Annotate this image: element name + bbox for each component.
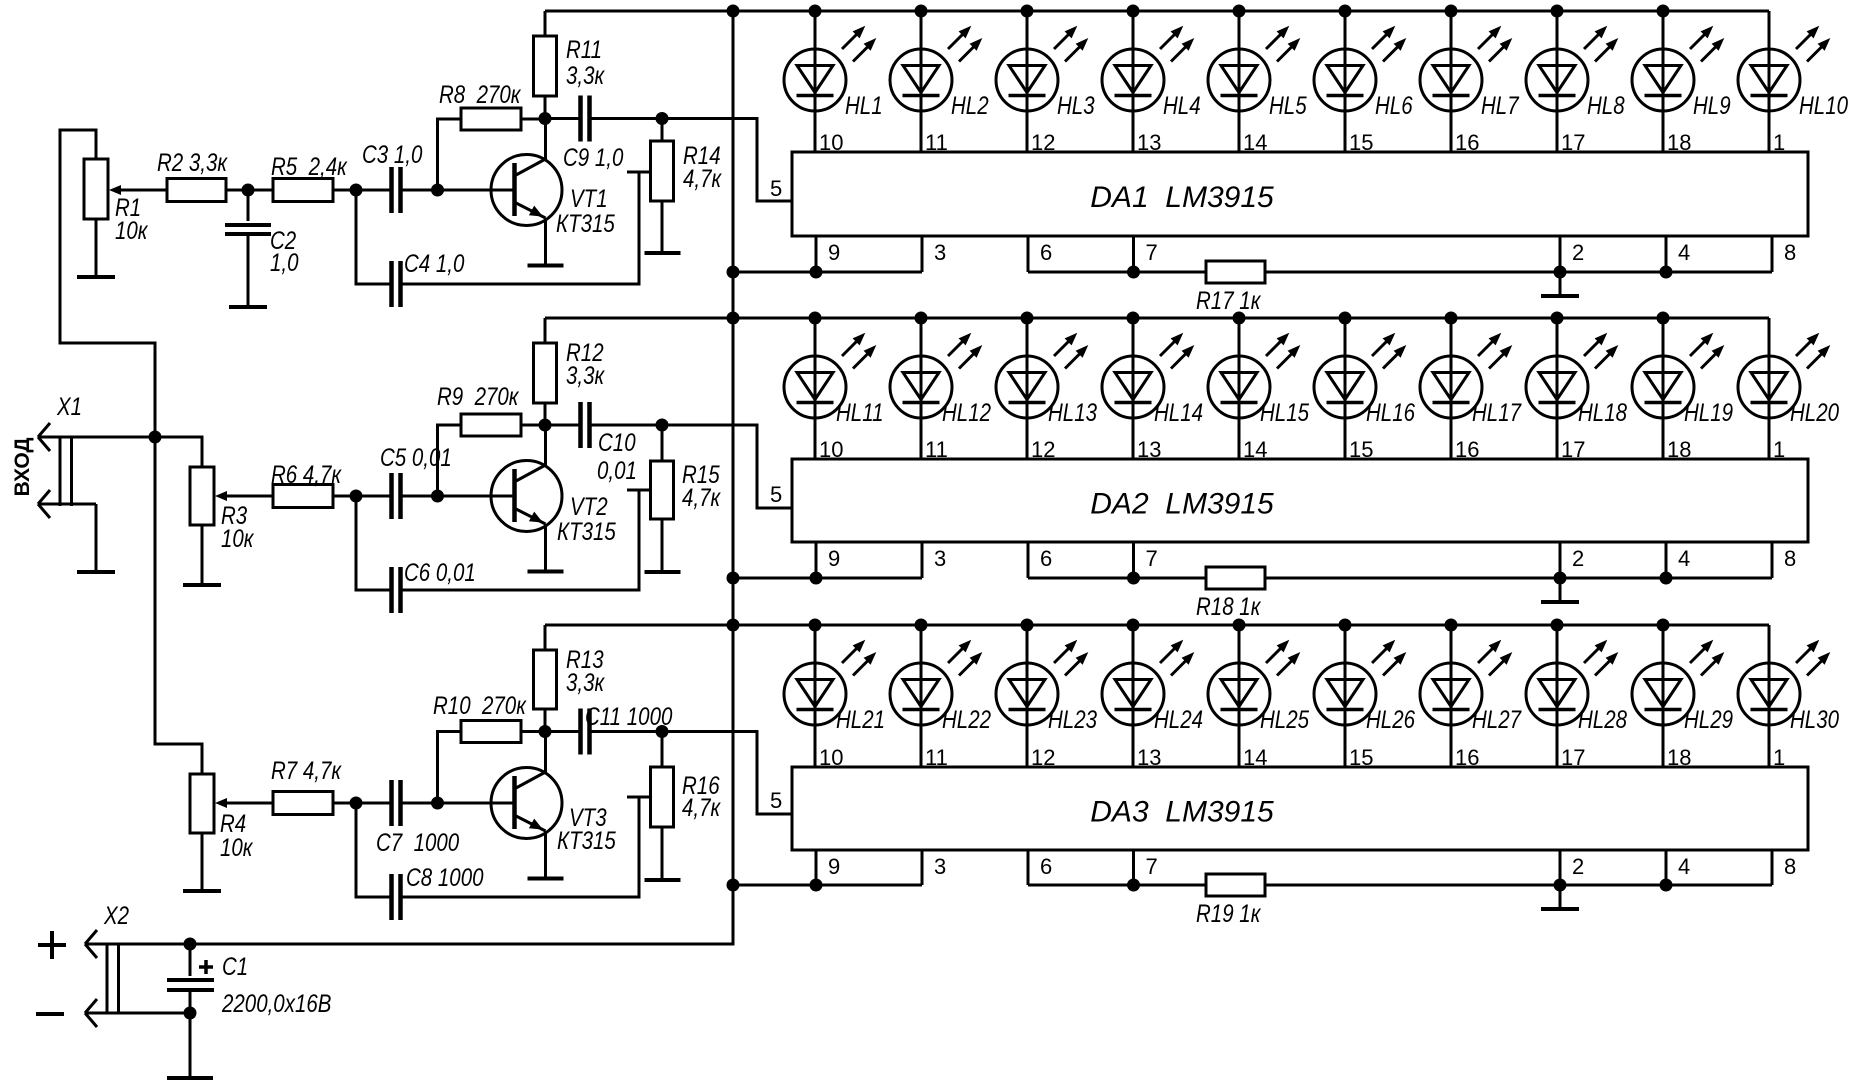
ground under C1 (167, 1013, 213, 1078)
ground at pin 2 DA2 (1541, 578, 1579, 602)
junction base node ch2 (431, 490, 444, 503)
svg-text:HL22: HL22 (942, 705, 991, 733)
wire C5 to base node (401, 495, 515, 498)
svg-text:R10 270к: R10 270к (433, 691, 527, 719)
svg-text:DA1 LM3915: DA1 LM3915 (1090, 181, 1274, 214)
junction V+ rail / bus row 1 (727, 5, 740, 18)
wire node1 down to C8 (356, 803, 391, 897)
LED HL15 (1208, 312, 1309, 463)
svg-text:DA2 LM3915: DA2 LM3915 (1090, 488, 1274, 521)
junction V+ rail / pin9 wire DA1 (727, 266, 740, 279)
svg-text:7: 7 (1146, 240, 1158, 265)
LED HL19 (1632, 312, 1733, 463)
pin 8 stub DA2 (1772, 542, 1796, 578)
junction V+ rail / pin9 wire DA3 (727, 879, 740, 892)
ground under R4 (183, 833, 221, 891)
wire V+ rail horizontal from X2 (85, 943, 735, 946)
wire bus to R12 (544, 318, 547, 343)
LED HL21 (784, 619, 885, 771)
svg-text:6: 6 (1040, 546, 1052, 571)
svg-text:8: 8 (1784, 546, 1796, 571)
junction node1 ch1 (350, 184, 363, 197)
wire pins 6,7 of DA3 (1028, 884, 1206, 887)
LED HL5 (1208, 5, 1307, 156)
junction C1 plus (184, 938, 197, 951)
wire V+ rail vertical (732, 11, 735, 946)
svg-text:HL12: HL12 (942, 398, 991, 426)
capacitor C8 (392, 863, 484, 920)
svg-text:R19 1к: R19 1к (1196, 899, 1261, 927)
svg-text:HL27: HL27 (1472, 705, 1522, 733)
svg-text:7: 7 (1146, 854, 1158, 879)
wire bus to R13 (544, 625, 547, 650)
junction pin 7 DA3 (1127, 879, 1140, 892)
wire R19 to pins 2,4,8 of DA3 (1265, 884, 1772, 887)
resistor R19 1к (1196, 874, 1265, 927)
LED HL27 (1420, 619, 1522, 771)
pin 9 stub DA3 (816, 850, 840, 885)
svg-text:4,7к: 4,7к (683, 164, 722, 192)
wire R7 to node (333, 802, 391, 805)
svg-text:C6 0,01: C6 0,01 (404, 558, 476, 586)
resistor R10 (433, 691, 527, 742)
resistor R16 (651, 732, 722, 828)
svg-text:HL7: HL7 (1481, 91, 1520, 119)
svg-text:8: 8 (1784, 854, 1796, 879)
pin 8 stub DA1 (1772, 236, 1796, 272)
svg-text:R11: R11 (566, 35, 602, 63)
wire base node up to R8 (438, 119, 462, 190)
svg-text:5: 5 (770, 176, 782, 201)
LED HL14 (1102, 312, 1203, 463)
capacitor C3 (362, 140, 423, 213)
wire R13 to collector node (544, 709, 547, 732)
junction collector node ch1 (539, 112, 552, 125)
svg-text:10к: 10к (220, 833, 254, 861)
svg-text:HL5: HL5 (1269, 91, 1307, 119)
pin 7 stub DA2 (1134, 542, 1158, 578)
svg-text:3: 3 (934, 240, 946, 265)
pin 2 stub DA3 (1560, 850, 1584, 885)
svg-text:HL16: HL16 (1366, 398, 1415, 426)
svg-text:4,7к: 4,7к (682, 483, 721, 511)
resistor R11 (534, 35, 606, 96)
junction pin 4 DA3 (1660, 879, 1673, 892)
svg-text:HL28: HL28 (1578, 705, 1627, 733)
LED HL13 (996, 312, 1097, 463)
wire R6 to node (333, 495, 391, 498)
connector X1 (38, 392, 202, 518)
wire R12 to collector node (544, 403, 547, 425)
svg-text:HL1: HL1 (845, 91, 883, 119)
capacitor C9 (563, 96, 624, 172)
junction divider node ch3 (656, 725, 669, 738)
junction divider node ch1 (656, 112, 669, 125)
wire input rail to R4 (155, 437, 202, 774)
resistor R7 (271, 756, 342, 814)
svg-text:5: 5 (770, 788, 782, 813)
LED HL12 (890, 312, 991, 463)
svg-text:2: 2 (1572, 240, 1584, 265)
svg-text:X1: X1 (56, 392, 82, 420)
svg-text:3,3к: 3,3к (566, 361, 605, 389)
junction pin 4 DA2 (1660, 572, 1673, 585)
LED HL30 (1738, 625, 1839, 770)
junction input rail / X1 (149, 431, 162, 444)
svg-text:C9 1,0: C9 1,0 (563, 143, 624, 171)
LED HL18 (1526, 312, 1627, 463)
resistor R6 (271, 460, 342, 507)
svg-text:2: 2 (1572, 854, 1584, 879)
wire wiper to R5 (215, 185, 273, 195)
ground under R15 (645, 519, 681, 572)
svg-text:HL14: HL14 (1154, 398, 1203, 426)
svg-text:R9 270к: R9 270к (437, 382, 520, 410)
svg-text:2: 2 (1572, 546, 1584, 571)
LED HL9 (1632, 5, 1731, 156)
svg-text:7: 7 (1146, 546, 1158, 571)
pin 2 stub DA2 (1560, 542, 1584, 578)
IC DA1 LM3915 (792, 152, 1808, 236)
wire R9 to collector node (521, 424, 546, 427)
svg-text:R18 1к: R18 1к (1196, 592, 1261, 620)
svg-text:HL10: HL10 (1799, 91, 1848, 119)
wire wiper to R6 (215, 491, 273, 501)
svg-text:4: 4 (1678, 854, 1690, 879)
wire R1 top to input rail (60, 130, 155, 437)
junction V+ rail / bus row 3 (727, 619, 740, 632)
LED HL7 (1420, 5, 1520, 156)
wire input node to R3 (155, 437, 202, 467)
wire R18 to pins 2,4,8 of DA2 (1265, 577, 1772, 580)
junction node1 ch3 (350, 797, 363, 810)
wire R11 to collector node (544, 96, 547, 119)
svg-text:X2: X2 (103, 901, 129, 929)
svg-text:0,01: 0,01 (597, 456, 637, 484)
wire LED anode bus row 1 (545, 10, 1769, 13)
svg-text:HL6: HL6 (1375, 91, 1413, 119)
svg-text:R8 270к: R8 270к (439, 80, 522, 108)
pin 2 stub DA1 (1560, 236, 1584, 272)
ground under R16 (645, 827, 681, 880)
junction pin 2 DA3 (1554, 879, 1567, 892)
svg-text:HL2: HL2 (951, 91, 989, 119)
wire divider node to pin 5 DA1 (662, 119, 792, 202)
pin 7 stub DA3 (1134, 850, 1158, 885)
pin 4 stub DA3 (1666, 850, 1690, 885)
resistor R5 (271, 152, 348, 201)
svg-text:HL23: HL23 (1048, 705, 1097, 733)
junction base node ch1 (431, 184, 444, 197)
pin 3 stub DA2 (922, 542, 946, 578)
svg-text:C1: C1 (222, 952, 248, 980)
resistor R14 (651, 119, 723, 202)
transistor VT3 КТ315 (491, 732, 616, 879)
svg-text:1,0: 1,0 (270, 248, 299, 276)
IC DA2 LM3915 (792, 459, 1808, 542)
svg-text:ВХОД: ВХОД (11, 438, 34, 497)
wire C10 to divider node (590, 424, 663, 427)
wire node1 down to C4 (356, 190, 391, 284)
svg-text:C3 1,0: C3 1,0 (362, 140, 423, 168)
svg-text:КТ315: КТ315 (556, 209, 615, 237)
resistor R8 (439, 80, 522, 130)
wire C6 to R15 (401, 490, 651, 590)
capacitor C6 (392, 558, 476, 613)
svg-text:HL15: HL15 (1260, 398, 1309, 426)
resistor R12 (534, 338, 606, 403)
svg-text:HL19: HL19 (1684, 398, 1733, 426)
junction divider node ch2 (656, 419, 669, 432)
junction pin 2 DA2 (1554, 572, 1567, 585)
LED HL2 (890, 5, 989, 156)
junction pin 9 DA1 (810, 266, 823, 279)
capacitor C4 (392, 249, 465, 307)
pin 8 stub DA3 (1772, 850, 1796, 885)
wire C11 to divider node (590, 730, 663, 733)
wire R2 to R5 node (226, 189, 273, 192)
ground at pin 2 DA3 (1541, 885, 1579, 909)
capacitor C1 2200,0x16В (167, 944, 331, 1017)
ground under R1 (77, 219, 115, 277)
svg-text:HL9: HL9 (1693, 91, 1731, 119)
svg-text:6: 6 (1040, 240, 1052, 265)
wire pins 9,3 of DA3 to V+ rail (733, 884, 922, 887)
capacitor C2 1,0 (225, 190, 299, 276)
LED HL16 (1314, 312, 1415, 463)
pin 7 stub DA1 (1134, 236, 1158, 272)
svg-text:R6 4,7к: R6 4,7к (271, 460, 342, 488)
svg-text:9: 9 (828, 240, 840, 265)
junction collector node ch2 (539, 419, 552, 432)
wire collector node to C9 (545, 117, 581, 120)
pin 3 stub DA3 (922, 850, 946, 885)
potentiometer R1 10к (84, 159, 149, 244)
junction C1 minus (184, 1007, 197, 1020)
connector X2 (85, 901, 190, 1027)
pin 6 stub DA1 (1028, 236, 1052, 272)
label ВХОД (11, 438, 34, 497)
resistor R9 (437, 382, 521, 436)
LED HL29 (1632, 619, 1733, 771)
wire C4 to R14 (401, 172, 651, 284)
junction node1 ch2 (350, 490, 363, 503)
wire wiper to R7 (215, 798, 273, 808)
LED HL10 (1738, 11, 1848, 155)
svg-text:9: 9 (828, 854, 840, 879)
LED HL11 (784, 312, 883, 463)
resistor R13 (534, 645, 606, 709)
svg-text:HL21: HL21 (836, 705, 885, 733)
junction V+ rail / pin9 wire DA2 (727, 572, 740, 585)
junction pin 7 DA1 (1127, 266, 1140, 279)
wire R1 wiper to R2 (109, 185, 167, 195)
wire LED anode bus row 2 (545, 317, 1769, 320)
junction V+ rail / bus row 2 (727, 312, 740, 325)
svg-text:R17 1к: R17 1к (1196, 286, 1261, 314)
svg-text:10к: 10к (221, 524, 255, 552)
svg-text:HL3: HL3 (1057, 91, 1095, 119)
LED HL25 (1208, 619, 1309, 771)
wire R8 to collector node (521, 118, 546, 121)
svg-text:КТ315: КТ315 (557, 826, 616, 854)
potentiometer R3 10к (190, 467, 255, 552)
svg-text:HL24: HL24 (1154, 705, 1203, 733)
pin 9 stub DA1 (816, 236, 840, 272)
svg-text:6: 6 (1040, 854, 1052, 879)
svg-text:HL20: HL20 (1790, 398, 1839, 426)
svg-text:4: 4 (1678, 546, 1690, 571)
svg-text:C10: C10 (598, 428, 636, 456)
ground under C2 (229, 234, 267, 307)
svg-text:10к: 10к (115, 216, 149, 244)
svg-text:9: 9 (828, 546, 840, 571)
svg-text:HL4: HL4 (1163, 91, 1201, 119)
wire pins 9,3 of DA2 to V+ rail (733, 577, 922, 580)
svg-text:4: 4 (1678, 240, 1690, 265)
svg-text:3: 3 (934, 854, 946, 879)
svg-text:5: 5 (770, 482, 782, 507)
ground at pin 2 DA1 (1541, 272, 1579, 296)
wire C9 to divider node (590, 117, 663, 120)
svg-text:2200,0x16В: 2200,0x16В (221, 989, 331, 1017)
junction base node ch3 (431, 797, 444, 810)
svg-text:HL11: HL11 (836, 398, 883, 426)
wire R5 to node (333, 189, 391, 192)
svg-text:HL13: HL13 (1048, 398, 1097, 426)
wire R10 to collector node (521, 730, 546, 733)
junction pin 7 DA2 (1127, 572, 1140, 585)
svg-text:3,3к: 3,3к (566, 61, 605, 89)
svg-text:3,3к: 3,3к (566, 668, 605, 696)
wire pins 9,3 of DA1 to V+ rail (733, 271, 922, 274)
svg-text:HL30: HL30 (1790, 705, 1839, 733)
svg-text:HL17: HL17 (1472, 398, 1522, 426)
svg-text:HL8: HL8 (1587, 91, 1625, 119)
pin 4 stub DA2 (1666, 542, 1690, 578)
LED HL1 (784, 5, 883, 156)
svg-text:HL29: HL29 (1684, 705, 1733, 733)
ground at X1 (77, 504, 115, 572)
svg-text:HL18: HL18 (1578, 398, 1627, 426)
wire R17 to pins 2,4,8 of DA1 (1265, 271, 1772, 274)
LED HL26 (1314, 619, 1415, 771)
IC DA3 LM3915 (792, 767, 1808, 850)
LED HL28 (1526, 619, 1627, 771)
wire collector node to C10 (545, 424, 581, 427)
pin 9 stub DA2 (816, 542, 840, 578)
label minus (36, 1012, 64, 1016)
svg-text:HL26: HL26 (1366, 705, 1415, 733)
svg-text:КТ315: КТ315 (557, 517, 616, 545)
capacitor C10 (581, 402, 637, 484)
svg-text:C8 1000: C8 1000 (406, 863, 484, 891)
capacitor C11 (581, 702, 673, 754)
wire C7 to base node (401, 802, 515, 805)
wire divider node to pin 5 DA3 (662, 732, 792, 815)
wire base node up to R9 (438, 425, 462, 496)
junction collector node ch3 (539, 725, 552, 738)
svg-text:C7 1000: C7 1000 (376, 828, 459, 856)
LED HL4 (1102, 5, 1201, 156)
junction R2/R5/C2 node (242, 184, 255, 197)
svg-text:3: 3 (934, 546, 946, 571)
pin 4 stub DA1 (1666, 236, 1690, 272)
wire collector node to C11 (545, 730, 581, 733)
wire pins 6,7 of DA1 (1028, 271, 1206, 274)
resistor R2 3,3к (157, 148, 228, 201)
label plus (38, 931, 66, 959)
junction pin 9 DA3 (810, 879, 823, 892)
LED HL3 (996, 5, 1095, 156)
wire bus to R11 (544, 11, 547, 36)
wire C3 to base node (401, 189, 515, 192)
wire pins 6,7 of DA2 (1028, 577, 1206, 580)
svg-text:DA3 LM3915: DA3 LM3915 (1090, 796, 1274, 829)
junction pin 2 DA1 (1554, 266, 1567, 279)
wire node1 down to C6 (356, 496, 391, 590)
svg-text:4,7к: 4,7к (682, 793, 721, 821)
svg-text:R5 2,4к: R5 2,4к (271, 152, 348, 180)
svg-text:R7 4,7к: R7 4,7к (271, 756, 342, 784)
svg-text:R2 3,3к: R2 3,3к (157, 148, 228, 176)
ground under R3 (183, 525, 221, 585)
resistor R18 1к (1196, 567, 1265, 620)
ground under R14 (645, 201, 681, 253)
LED HL6 (1314, 5, 1413, 156)
wire C8 to R16 (401, 797, 651, 897)
junction pin 9 DA2 (810, 572, 823, 585)
svg-text:C5 0,01: C5 0,01 (380, 443, 452, 471)
junction pin 4 DA1 (1660, 266, 1673, 279)
resistor R17 1к (1196, 261, 1265, 314)
capacitor C7 (376, 780, 459, 856)
capacitor C5 (380, 443, 452, 519)
LED HL23 (996, 619, 1097, 771)
pin 3 stub DA1 (922, 236, 946, 272)
resistor R15 (651, 425, 722, 519)
LED HL22 (890, 619, 991, 771)
wire divider node to pin 5 DA2 (662, 425, 792, 508)
wire base node up to R10 (438, 732, 462, 804)
pin 6 stub DA3 (1028, 850, 1052, 885)
transistor VT1 КТ315 (491, 119, 615, 266)
potentiometer R4 10к (190, 774, 254, 861)
transistor VT2 КТ315 (491, 425, 616, 572)
pin 6 stub DA2 (1028, 542, 1052, 578)
LED HL17 (1420, 312, 1522, 463)
LED HL20 (1738, 318, 1839, 462)
svg-text:HL25: HL25 (1260, 705, 1309, 733)
svg-text:8: 8 (1784, 240, 1796, 265)
LED HL24 (1102, 619, 1203, 771)
wire LED anode bus row 3 (545, 624, 1769, 627)
svg-text:C4 1,0: C4 1,0 (404, 249, 465, 277)
LED HL8 (1526, 5, 1625, 156)
